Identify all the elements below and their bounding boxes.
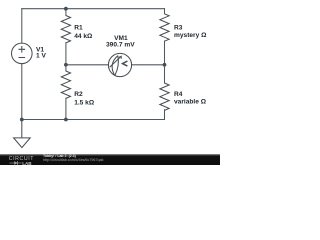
wire right column node to R4: [164, 65, 166, 83]
node junction dot mid right: [163, 63, 167, 67]
svg-text:390.7 mV: 390.7 mV: [106, 42, 135, 49]
wire right column R4 bottom: [164, 110, 166, 120]
wire V1 bottom lead: [21, 64, 23, 120]
resistor R2: [61, 71, 70, 98]
node junction dot bottom left: [20, 118, 24, 122]
voltage source V1: [11, 43, 32, 64]
node junction dot top R1: [64, 7, 68, 11]
footer CircuitLab logo: [9, 156, 34, 162]
label VM1: [106, 35, 135, 49]
resistor R4: [160, 83, 169, 110]
label V1: [36, 47, 46, 60]
voltmeter VM1: [108, 53, 131, 76]
node junction dot bottom R2: [64, 118, 68, 122]
wire R1 top lead: [65, 9, 67, 16]
wire right column top: [164, 9, 166, 14]
svg-text:R1: R1: [74, 24, 83, 31]
voltmeter VM1 V-glyph: [123, 61, 128, 66]
svg-text:R3: R3: [174, 24, 183, 31]
label R4: [174, 91, 207, 105]
wire R2 bottom lead: [65, 98, 67, 119]
footer url text: [43, 158, 103, 162]
label R3: [174, 24, 207, 39]
svg-text:variable Ω: variable Ω: [174, 98, 207, 105]
svg-text:R4: R4: [174, 91, 183, 98]
label R1: [74, 24, 93, 40]
label R2: [74, 91, 95, 107]
svg-text:1 V: 1 V: [36, 53, 46, 60]
wire R2 top lead: [65, 65, 67, 71]
svg-text:mystery Ω: mystery Ω: [174, 32, 207, 39]
ground: [14, 120, 31, 148]
wire top rail: [22, 8, 165, 10]
resistor R3: [160, 14, 169, 41]
footer title text: [43, 154, 76, 158]
wire middle right (VM1 to node): [132, 64, 165, 66]
wire middle left (node to VM1): [66, 64, 109, 66]
wire right column R3 to node: [164, 41, 166, 65]
svg-text:LAB: LAB: [22, 161, 32, 165]
svg-text:R2: R2: [74, 91, 83, 98]
resistor R1: [61, 16, 70, 43]
wire V1 top lead: [21, 9, 23, 43]
node junction dot mid left: [64, 63, 68, 67]
footer bar: [0, 154, 220, 166]
svg-text:44 kΩ: 44 kΩ: [74, 33, 93, 40]
svg-text:1.5 kΩ: 1.5 kΩ: [74, 99, 95, 106]
wire bottom rail: [22, 119, 165, 121]
wire R1 bottom lead: [65, 43, 67, 65]
